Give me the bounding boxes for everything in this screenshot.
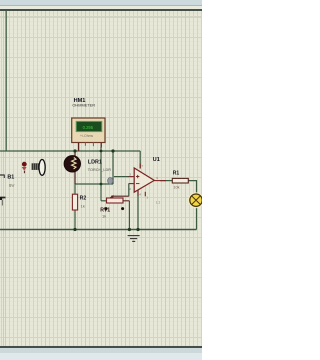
svg-text:7: 7 bbox=[141, 164, 143, 168]
plus minus markings bbox=[136, 175, 139, 178]
ohmmeter pin right bbox=[100, 143, 102, 148]
LDR1 bbox=[64, 156, 111, 172]
pin2 bbox=[129, 183, 135, 185]
wire to pin3 bbox=[113, 176, 129, 178]
wire pin2 to wiper bbox=[128, 184, 130, 197]
svg-text:2: 2 bbox=[129, 187, 131, 191]
resistor R1 bbox=[172, 171, 188, 190]
svg-text:0.295: 0.295 bbox=[83, 125, 94, 130]
battery B1 bbox=[0, 174, 14, 205]
svg-text:TORCH_LDR: TORCH_LDR bbox=[88, 168, 111, 172]
svg-text:1k: 1k bbox=[81, 203, 85, 208]
wire R2 bottom lead bbox=[74, 210, 76, 230]
svg-text:L1: L1 bbox=[156, 200, 161, 205]
svg-text:1k: 1k bbox=[102, 213, 106, 218]
svg-text:R1: R1 bbox=[173, 171, 180, 177]
wire ohmmeter right pin down to RV1 left bbox=[100, 147, 102, 201]
wire LDR bottom lead bbox=[74, 171, 76, 184]
bottom window strip bbox=[0, 348, 202, 353]
wire W1 horizontal supply bbox=[0, 150, 140, 152]
node junction W1/LDR bbox=[73, 149, 76, 152]
ohmmeter pin left bbox=[78, 143, 80, 151]
sheet bottom border bbox=[0, 346, 202, 348]
pin1/5 stub bbox=[144, 192, 146, 197]
svg-text:B1: B1 bbox=[7, 174, 14, 180]
wire lamp bottom to rail bbox=[196, 207, 198, 230]
node junction R2 rail bbox=[73, 228, 76, 231]
wire to op-amp pin7 bbox=[139, 151, 141, 168]
top window strip bbox=[0, 0, 202, 5]
svg-text:U1: U1 bbox=[153, 157, 160, 163]
wire RV1 right lead down to ground rail bbox=[128, 201, 130, 230]
svg-text:+/-Ohms: +/-Ohms bbox=[80, 134, 93, 138]
node junction RV1 rail bbox=[128, 228, 131, 231]
ground bbox=[128, 236, 140, 242]
wire pin4 down to ground rail bbox=[137, 190, 139, 230]
wire op-amp output to R1 bbox=[160, 180, 172, 182]
op-amp U1 bbox=[129, 157, 166, 200]
ohmmeter HM1 bbox=[72, 98, 105, 151]
wire R1 to lamp bbox=[188, 181, 196, 194]
node junction W1/V113 bbox=[111, 149, 114, 152]
voltage probe bbox=[108, 176, 114, 184]
sheet top border bbox=[0, 9, 202, 11]
wire ground rail bbox=[0, 229, 197, 231]
node junction W1/ohm wire bbox=[100, 150, 103, 153]
wire RV1 left lead bbox=[101, 200, 107, 202]
svg-text:1: 1 bbox=[146, 196, 148, 200]
pin6 output bbox=[154, 180, 166, 182]
potentiometer RV1 bbox=[100, 195, 129, 219]
pin7 bbox=[139, 164, 141, 169]
wire LDR top lead bbox=[74, 151, 76, 156]
node junction nodeB bbox=[100, 183, 103, 186]
svg-text:9V: 9V bbox=[9, 183, 14, 188]
wire vertical node to +input bbox=[112, 151, 114, 184]
LED D1 bbox=[22, 162, 27, 173]
wire LDR bottom node horizontal bbox=[75, 183, 113, 185]
pin3 bbox=[129, 176, 135, 178]
svg-text:4: 4 bbox=[139, 192, 141, 196]
svg-text:LDR1: LDR1 bbox=[88, 159, 102, 165]
ohmmeter pin stubs bbox=[84, 143, 86, 146]
svg-text:3: 3 bbox=[129, 172, 131, 176]
svg-text:OHMMETER: OHMMETER bbox=[72, 103, 95, 108]
pin4 bbox=[137, 190, 139, 196]
svg-text:6: 6 bbox=[156, 176, 158, 180]
svg-text:R2: R2 bbox=[80, 196, 87, 202]
wire R2 top lead bbox=[74, 184, 76, 194]
resistor R2 bbox=[72, 194, 86, 210]
speaker LS1 bbox=[32, 160, 46, 176]
svg-text:10k: 10k bbox=[173, 186, 179, 190]
lamp L1 bbox=[156, 192, 204, 208]
node junction pin4 rail bbox=[136, 228, 139, 231]
wire left vertical from top border to W1 bbox=[5, 11, 7, 152]
